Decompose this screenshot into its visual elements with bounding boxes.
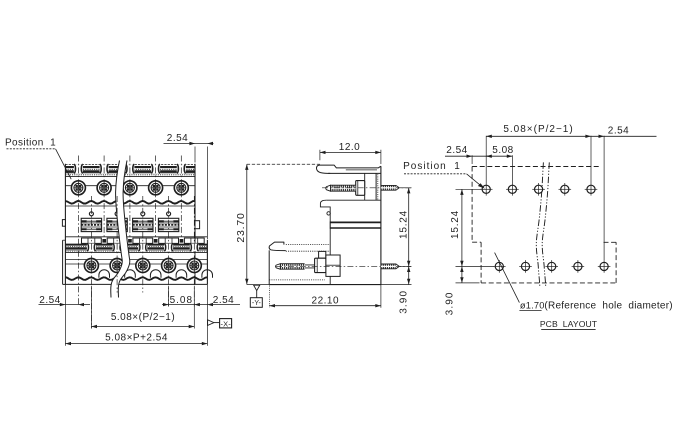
label Position 1 right xyxy=(403,161,485,188)
svg-text:ø1.70: ø1.70 xyxy=(520,301,545,311)
wire-entry barrel at x=78 xyxy=(74,164,83,173)
lower snout hook xyxy=(269,242,286,251)
svg-text:2.54: 2.54 xyxy=(167,133,188,144)
vent hole at x=169 xyxy=(167,212,171,216)
pcb hole bottom 1 xyxy=(493,260,506,273)
svg-text:-Y-: -Y- xyxy=(252,300,262,307)
pcb hole bottom 3 xyxy=(545,260,558,273)
pcb hole top 5 xyxy=(585,183,598,196)
dimension 5.08xP+2.54 xyxy=(65,333,207,346)
dimension 22.10 xyxy=(269,284,381,307)
dimension 5.08x(P/2-1) xyxy=(91,312,194,328)
screw terminal at (169,266) xyxy=(162,259,176,273)
strip2 rails xyxy=(65,245,207,253)
svg-text:12.0: 12.0 xyxy=(339,142,360,153)
vent hole at x=91 xyxy=(89,212,93,216)
svg-text:2.54: 2.54 xyxy=(608,126,629,137)
wire clamp cage at x=117 xyxy=(107,218,127,231)
upper cage top line xyxy=(346,169,377,171)
svg-text:-X-: -X- xyxy=(221,319,232,328)
wire clamp cage at x=143 xyxy=(133,218,153,231)
wire-entry barrel at x=104 xyxy=(100,164,109,173)
upper snout bottom line xyxy=(328,172,381,174)
dimension 5.08 pcb xyxy=(486,145,514,183)
latch hole circle xyxy=(327,212,330,215)
screw terminal at (117,266) xyxy=(110,259,124,273)
svg-text:22.10: 22.10 xyxy=(312,295,340,306)
pcb hole top 1 xyxy=(480,183,493,196)
screw terminal at (130,188) xyxy=(123,181,137,195)
pcb hole bottom 4 xyxy=(572,260,585,273)
dimension 2.54 top right xyxy=(164,133,214,239)
dimension 2.54 pcb top right xyxy=(591,126,657,139)
svg-text:15.24: 15.24 xyxy=(398,210,409,239)
wire clamp cage at x=91 xyxy=(81,218,101,231)
svg-text:Position 1: Position 1 xyxy=(5,137,56,148)
dimension 15.24 pcb xyxy=(450,189,494,266)
lower clamp nut xyxy=(319,251,326,258)
svg-text:5.08: 5.08 xyxy=(492,145,513,156)
leader ref hole diameter xyxy=(495,253,673,312)
screw terminal at (156,188) xyxy=(149,181,163,195)
pcb pin upper xyxy=(381,185,399,190)
strip2 clamp plates xyxy=(82,238,205,243)
lower left edge xyxy=(268,250,270,284)
left small tab xyxy=(62,220,65,227)
lower pin centerline xyxy=(276,265,411,267)
screw terminal at (143,266) xyxy=(136,259,150,273)
title PCB LAYOUT xyxy=(540,319,598,330)
dimension 2.54 bottom left xyxy=(39,295,91,306)
break wave lower housing xyxy=(65,277,207,280)
right step notch xyxy=(195,221,200,229)
extension lines below front view xyxy=(65,284,207,345)
svg-text:5.08×P+2.54: 5.08×P+2.54 xyxy=(105,333,168,344)
pcb hole bottom 5 xyxy=(598,260,611,273)
middle contact strip xyxy=(330,221,381,228)
hidden lines lower level xyxy=(269,245,330,280)
svg-text:(Reference hole diameter): (Reference hole diameter) xyxy=(544,301,672,312)
svg-text:5.08×(P/2−1): 5.08×(P/2−1) xyxy=(111,312,175,323)
lower contact cage xyxy=(326,255,340,276)
bottom housing right edge xyxy=(206,240,208,285)
pcb hole top 3 xyxy=(532,183,545,196)
upper clamp screw head xyxy=(356,181,365,196)
vent hole at x=117 xyxy=(115,212,119,216)
screw terminal at (91,266) xyxy=(84,259,98,273)
upper wire pin (knurled) xyxy=(326,185,356,191)
svg-text:2.54: 2.54 xyxy=(213,295,234,306)
svg-text:5.08: 5.08 xyxy=(170,295,193,306)
pcb break line left xyxy=(536,162,543,286)
screw terminal at (194,266) xyxy=(187,259,201,273)
svg-text:5.08×(P/2−1): 5.08×(P/2−1) xyxy=(503,124,573,135)
side bottom edge xyxy=(269,284,381,286)
front strip rail lines xyxy=(65,165,195,177)
bottom screw row connecting lines xyxy=(65,260,207,264)
screw terminal at (181,188) xyxy=(174,181,188,195)
dimension 15.24 side xyxy=(381,188,412,285)
dimension 5.08x(P/2-1) pcb xyxy=(486,124,604,260)
datum -X- xyxy=(208,319,232,329)
screw terminal at (104,188) xyxy=(97,181,111,195)
wire opening arcs bottom row xyxy=(99,270,213,278)
dimension 3.90 pcb xyxy=(444,266,479,315)
dimension 3.90 side xyxy=(399,266,411,313)
upper pin centerline xyxy=(322,187,411,189)
top screw row connecting line xyxy=(65,185,195,187)
pcb dashed outline xyxy=(472,167,616,283)
svg-text:Position 1: Position 1 xyxy=(403,161,461,172)
pcb pin lower xyxy=(381,264,399,269)
line under wave 1 xyxy=(65,205,195,207)
front bottom edge xyxy=(65,283,207,285)
centerlines top positions xyxy=(78,156,181,307)
vent hole at x=143 xyxy=(141,212,145,216)
upper snout profile xyxy=(316,165,380,173)
wire clamp cage at x=169 xyxy=(158,218,178,231)
pcb break line right xyxy=(542,162,549,286)
pcb hole bottom 2 xyxy=(519,260,532,273)
svg-text:15.24: 15.24 xyxy=(450,210,461,239)
dimension 23.70 xyxy=(235,164,320,284)
label Position 1 left xyxy=(5,137,71,179)
dimension 5.08 bottom right xyxy=(162,295,240,306)
front break-out band (erased) xyxy=(111,161,130,298)
upper contact cage xyxy=(365,173,378,200)
lower wire pin (knurled) xyxy=(276,264,315,270)
pcb hole top 4 xyxy=(559,183,572,196)
pcb hole top 2 xyxy=(506,183,519,196)
wire-entry barrel at x=181 xyxy=(177,164,186,173)
wire-entry barrel at x=130 xyxy=(125,164,134,173)
svg-text:PCB LAYOUT: PCB LAYOUT xyxy=(540,319,598,329)
centerlines bottom positions xyxy=(91,196,194,329)
left step of lower housing xyxy=(63,240,66,284)
datum -Y- xyxy=(250,285,262,307)
screw terminal at (78,188) xyxy=(71,181,85,195)
svg-text:23.70: 23.70 xyxy=(235,212,247,242)
dimension 2.54 pcb left xyxy=(445,145,492,164)
break wave upper housing xyxy=(65,201,195,204)
strip2 top line xyxy=(65,236,207,238)
front break line right xyxy=(118,161,130,298)
upper cavity floor xyxy=(326,199,381,201)
front view: top housing outline xyxy=(65,164,195,285)
svg-text:2.54: 2.54 xyxy=(39,295,60,306)
wire-entry barrel at x=156 xyxy=(151,164,160,173)
side body right edge xyxy=(380,166,382,284)
svg-text:2.54: 2.54 xyxy=(446,145,467,156)
dimension 12.0 xyxy=(320,142,381,164)
svg-text:3.90: 3.90 xyxy=(399,290,410,314)
svg-text:3.90: 3.90 xyxy=(444,291,455,315)
lower clamp screw head xyxy=(315,258,326,272)
front break line left xyxy=(111,161,123,298)
